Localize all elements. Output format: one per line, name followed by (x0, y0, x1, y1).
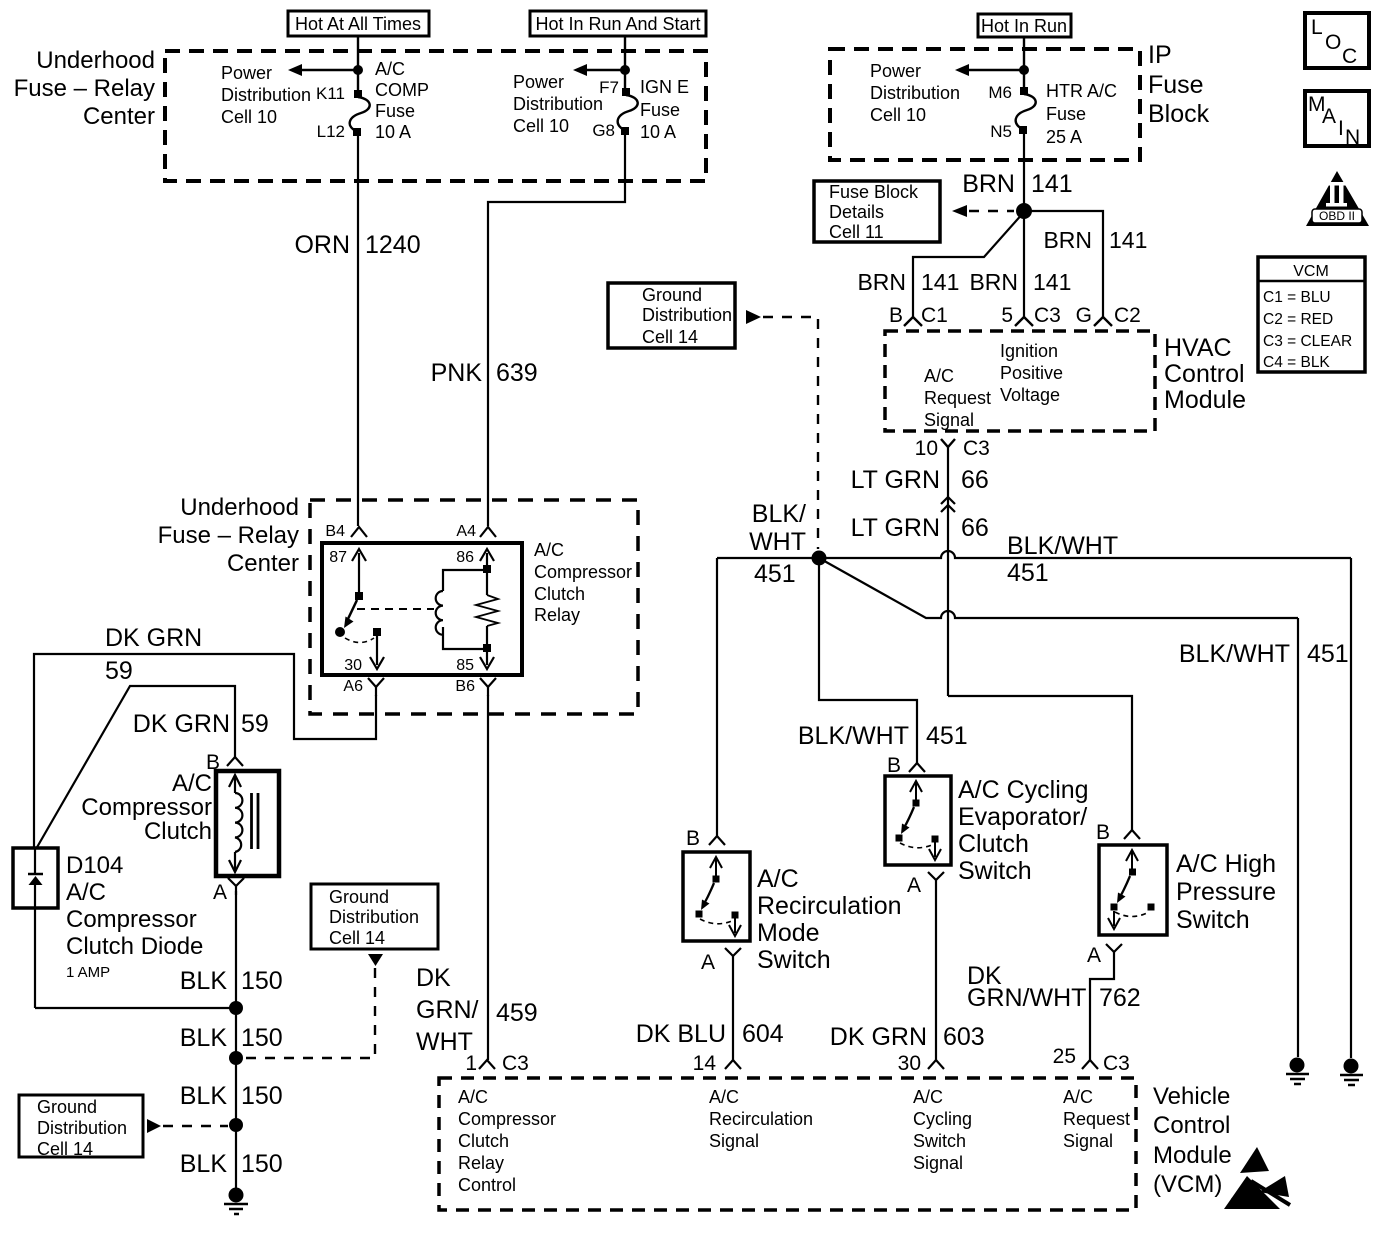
label Vehicle Control Module (VCM) (1153, 1083, 1232, 1198)
label DK GRN 59 (clutch branch) (133, 710, 269, 738)
svg-text:Compressor: Compressor (534, 562, 632, 582)
pin B of A/C recirculation mode switch (686, 827, 725, 850)
svg-text:C1: C1 (921, 304, 948, 327)
svg-text:D104: D104 (66, 852, 123, 879)
high pressure switch internals (1108, 850, 1155, 929)
svg-text:A/C: A/C (66, 879, 106, 906)
pin 5 / C3 of HVAC (1001, 304, 1061, 327)
svg-text:B: B (887, 754, 901, 777)
label A/C Recirculation Signal (VCM internal) (709, 1087, 813, 1151)
label BLK 150 (4) (180, 1150, 283, 1178)
svg-text:Distribution: Distribution (329, 907, 419, 927)
svg-text:DK GRN: DK GRN (830, 1023, 927, 1051)
wire DK GRN 59 from relay A6 to clutch circuit (34, 654, 376, 849)
svg-text:Request: Request (924, 388, 991, 408)
svg-text:1: 1 (465, 1052, 477, 1075)
svg-text:451: 451 (1007, 559, 1049, 587)
svg-text:Recirculation: Recirculation (757, 892, 902, 920)
svg-text:LT GRN: LT GRN (851, 514, 940, 542)
svg-text:Relay: Relay (534, 605, 580, 625)
svg-text:BRN: BRN (969, 269, 1018, 295)
svg-text:BLK/: BLK/ (752, 500, 806, 528)
svg-text:1240: 1240 (365, 231, 421, 259)
svg-text:Distribution: Distribution (642, 305, 732, 325)
svg-text:604: 604 (742, 1020, 784, 1048)
svg-text:Fuse – Relay: Fuse – Relay (14, 75, 155, 102)
pin B / C1 of HVAC (889, 304, 948, 327)
svg-text:25: 25 (1053, 1045, 1076, 1068)
pin A of A/C cycling switch (907, 872, 944, 897)
svg-text:A/C: A/C (375, 59, 405, 79)
svg-text:C: C (1342, 45, 1357, 68)
svg-text:Cell 11: Cell 11 (829, 222, 884, 242)
wire BLK/WHT 451 branch down to recirculation switch B (716, 558, 718, 836)
relay switch blade with arrow (344, 600, 357, 628)
label DK GRN/ WHT 459 (416, 964, 538, 1056)
svg-text:A/C: A/C (172, 770, 212, 797)
label BRN 141 (right branch) (1043, 227, 1147, 253)
svg-text:O: O (1325, 31, 1341, 54)
label DK BLU 604 (636, 1020, 784, 1048)
pin B of A/C high pressure switch (1096, 821, 1140, 844)
svg-text:86: 86 (456, 549, 474, 566)
relay switch common contact (355, 592, 363, 600)
svg-text:BLK/WHT: BLK/WHT (1179, 640, 1290, 668)
relay pin 30 arrow (344, 636, 384, 674)
svg-text:VCM: VCM (1293, 263, 1329, 280)
wire LT GRN 66 horizontal to high pressure switch B (948, 696, 1132, 830)
svg-text:Distribution: Distribution (513, 94, 603, 114)
node splice BLK (2) (229, 1051, 243, 1065)
svg-text:Hot At All Times: Hot At All Times (295, 14, 421, 34)
svg-text:IGN E: IGN E (640, 77, 689, 97)
svg-text:B6: B6 (455, 678, 475, 695)
label A/C COMP Fuse 10 A (375, 59, 429, 142)
wire from Hot In Run to fuse (1023, 37, 1025, 88)
svg-text:Hot In Run: Hot In Run (981, 16, 1067, 36)
svg-text:66: 66 (961, 466, 989, 494)
svg-text:Cell 10: Cell 10 (513, 116, 569, 136)
svg-text:10: 10 (915, 437, 938, 460)
svg-text:150: 150 (241, 967, 283, 995)
svg-text:Compressor: Compressor (458, 1109, 556, 1129)
svg-text:L: L (1311, 16, 1323, 39)
svg-text:A6: A6 (343, 678, 363, 695)
svg-text:Ignition: Ignition (1000, 341, 1058, 361)
svg-text:150: 150 (241, 1024, 283, 1052)
wire BRN 141 branch to HVAC pin B/C1 (913, 212, 1024, 317)
label LT GRN 66 (upper) (851, 466, 989, 494)
label IP Fuse Block (1148, 41, 1210, 128)
label Power Distribution Cell 10 (left block) (221, 63, 311, 127)
svg-text:C3: C3 (963, 437, 990, 460)
svg-text:Cell 14: Cell 14 (642, 327, 698, 347)
svg-text:141: 141 (921, 269, 959, 295)
wire DK GRN/WHT 459 from relay B6 to VCM pin 1/C3 (487, 695, 489, 1060)
pin 30 of VCM (898, 1052, 944, 1075)
svg-text:C3: C3 (1034, 304, 1061, 327)
legend box MAIN (1305, 91, 1369, 149)
svg-text:Vehicle: Vehicle (1153, 1083, 1230, 1110)
svg-text:A/C: A/C (757, 865, 799, 893)
wire arrow to Power Distribution Cell 10 (IP block) (955, 64, 1022, 76)
svg-text:F7: F7 (599, 78, 619, 97)
svg-text:A/C: A/C (534, 540, 564, 560)
svg-text:Cell 14: Cell 14 (329, 928, 385, 948)
wire BRN 141 from fuse N5 down to splice (1023, 134, 1025, 208)
dashed reference arrow to Fuse Block Details (952, 205, 1014, 217)
label D104 A/C Compressor Clutch Diode 1 AMP (66, 852, 203, 981)
label DK GRN/WHT 762 (967, 962, 1141, 1012)
svg-text:DK GRN: DK GRN (133, 710, 230, 738)
svg-text:N5: N5 (990, 122, 1012, 141)
svg-text:10 A: 10 A (375, 122, 411, 142)
svg-text:Signal: Signal (1063, 1131, 1113, 1151)
svg-text:Distribution: Distribution (37, 1118, 127, 1138)
svg-text:Power: Power (870, 61, 921, 81)
svg-text:Fuse: Fuse (1148, 71, 1204, 99)
svg-text:459: 459 (496, 999, 538, 1027)
svg-text:B: B (889, 304, 903, 327)
node junction at IGN E fuse feed (620, 65, 630, 75)
svg-text:A/C: A/C (458, 1087, 488, 1107)
wire DK GRN 603 to VCM pin 30 (935, 880, 937, 1060)
label Power Distribution Cell 10 (IP block) (870, 61, 960, 125)
IP fuse block dashed box (830, 49, 1140, 160)
label A/C High Pressure Switch (1176, 850, 1276, 934)
svg-text:Power: Power (221, 63, 272, 83)
svg-text:A: A (1087, 944, 1101, 967)
label BLK/WHT 451 (top right run) (1007, 532, 1118, 587)
wire DK GRN 59 branch to clutch B and diode (36, 686, 235, 849)
svg-text:Underhood: Underhood (180, 494, 299, 521)
svg-text:LT GRN: LT GRN (851, 466, 940, 494)
ground symbol G104 (far right) (1340, 1059, 1363, 1086)
svg-text:BRN: BRN (1043, 227, 1092, 253)
svg-text:OBD II: OBD II (1319, 209, 1355, 223)
svg-text:A/C: A/C (913, 1087, 943, 1107)
ground symbol G103 (right) (1286, 1058, 1309, 1085)
wire DK GRN/WHT 762 to VCM pin 25/C3 (1090, 952, 1114, 1060)
svg-text:Ground: Ground (37, 1097, 97, 1117)
svg-text:Ground: Ground (642, 285, 702, 305)
reference box Ground Distribution Cell 14 (middle) (311, 884, 438, 949)
svg-text:PNK: PNK (431, 359, 483, 387)
svg-text:5: 5 (1001, 304, 1013, 327)
svg-text:87: 87 (329, 549, 347, 566)
svg-text:150: 150 (241, 1082, 283, 1110)
svg-text:Cell 14: Cell 14 (37, 1139, 93, 1159)
diode D104 symbol (28, 849, 43, 1008)
relay K (A/C Compressor Clutch Relay) box (322, 543, 522, 675)
wire PNK 639 from fuse G8 to relay pin A4 (488, 135, 625, 526)
svg-text:Fuse: Fuse (640, 100, 680, 120)
svg-text:WHT: WHT (749, 528, 806, 556)
svg-text:L12: L12 (317, 122, 345, 141)
svg-text:HVAC: HVAC (1164, 334, 1232, 362)
wire BLK/WHT 451 branch down to cycling switch B (819, 558, 917, 763)
svg-text:M6: M6 (988, 83, 1012, 102)
svg-text:N: N (1345, 126, 1360, 149)
wire break marker on LT GRN 66 (941, 497, 955, 512)
pin A4 of relay (456, 523, 496, 540)
wire from Hot In Run And Start to fuse (624, 36, 626, 88)
svg-text:Compressor: Compressor (66, 906, 197, 933)
svg-text:K11: K11 (316, 84, 345, 103)
node junction at HTR A/C fuse feed (1019, 65, 1029, 75)
label Ignition Positive Voltage (HVAC internal) (1000, 341, 1063, 405)
label A/C Compressor Clutch Relay Control (VCM internal) (458, 1087, 556, 1195)
svg-text:Fuse Block: Fuse Block (829, 182, 919, 202)
svg-text:Details: Details (829, 202, 884, 222)
power feed label box "Hot At All Times" (288, 11, 429, 36)
relay switch pole dot (335, 627, 345, 637)
svg-text:Ground: Ground (329, 887, 389, 907)
fuse F7/G8 IGN E 10A (618, 88, 638, 135)
svg-text:150: 150 (241, 1150, 283, 1178)
svg-text:Distribution: Distribution (221, 85, 311, 105)
fuse M6/N5 HTR A/C 25A (1016, 87, 1036, 134)
svg-text:Fuse: Fuse (1046, 104, 1086, 124)
svg-text:Power: Power (513, 72, 564, 92)
wire LT GRN 66 from HVAC 10/C3 down to high pressure switch (947, 447, 949, 696)
svg-text:141: 141 (1109, 227, 1147, 253)
pin B4 of relay (325, 523, 367, 540)
svg-text:G: G (1076, 304, 1092, 327)
svg-text:A: A (701, 951, 715, 974)
svg-text:A/C Cycling: A/C Cycling (958, 776, 1089, 804)
pin B6 of relay (455, 678, 496, 696)
wire BLK 150 from clutch A to ground (235, 891, 237, 1190)
label Underhood Fuse - Relay Center (relay) (158, 494, 299, 577)
svg-text:ORN: ORN (294, 231, 350, 259)
svg-text:Cell 10: Cell 10 (221, 107, 277, 127)
svg-text:Clutch: Clutch (958, 830, 1029, 858)
node splice S141 (1016, 203, 1032, 219)
svg-text:A4: A4 (456, 523, 476, 540)
pin A of A/C high pressure switch (1087, 944, 1122, 967)
reference box Ground Distribution Cell 14 (bottom left) (19, 1095, 143, 1159)
svg-text:C2: C2 (1114, 304, 1141, 327)
label A/C Request Signal (HVAC internal) (924, 366, 991, 430)
svg-text:762: 762 (1099, 984, 1141, 1012)
relay pin 86 arrow (456, 549, 494, 566)
svg-text:10 A: 10 A (640, 122, 676, 142)
svg-text:66: 66 (961, 514, 989, 542)
node splice BLK/WHT 451 (812, 551, 827, 566)
svg-text:Control: Control (1164, 360, 1245, 388)
fuse F K11/L12 A/C COMP 10A (350, 90, 370, 136)
svg-text:Request: Request (1063, 1109, 1130, 1129)
svg-text:Pressure: Pressure (1176, 878, 1276, 906)
node junction at A/C COMP fuse feed (353, 65, 363, 75)
diode D104 box (13, 848, 58, 908)
label BLK 150 (3) (180, 1082, 283, 1110)
svg-text:603: 603 (943, 1023, 985, 1051)
relay switch dashed throw arc (345, 638, 374, 643)
svg-text:30: 30 (344, 657, 362, 674)
label DK GRN 59 (upper run) (105, 624, 202, 685)
svg-text:C4 = BLK: C4 = BLK (1263, 354, 1330, 371)
legend box LOC (1305, 13, 1369, 68)
svg-text:14: 14 (693, 1052, 717, 1075)
label Underhood Fuse - Relay Center (top) (14, 47, 155, 130)
relay coil (436, 570, 487, 649)
svg-text:BLK: BLK (180, 967, 228, 995)
svg-text:BLK: BLK (180, 1082, 228, 1110)
relay pin 85 arrow (456, 650, 494, 674)
wire ORN 1240 from fuse L12 to relay pin B4 (357, 136, 359, 526)
A/C cycling evaporator/clutch switch box (885, 776, 951, 865)
svg-text:Module: Module (1153, 1142, 1232, 1169)
svg-text:30: 30 (898, 1052, 921, 1075)
svg-text:59: 59 (105, 657, 133, 685)
svg-text:Clutch: Clutch (534, 584, 585, 604)
relay coil node squares on pin 86-85 wire (483, 565, 491, 573)
pin 14 of VCM (693, 1052, 741, 1075)
svg-text:639: 639 (496, 359, 538, 387)
svg-text:A: A (907, 874, 921, 897)
dashed reference arrow from Ground Distribution (bottom) to BLK splice 3 (147, 1119, 228, 1133)
svg-text:B: B (1096, 821, 1110, 844)
label HTR A/C Fuse 25 A (1046, 81, 1117, 147)
svg-text:1 AMP: 1 AMP (66, 964, 110, 981)
label A/C Request Signal (VCM internal) (1063, 1087, 1130, 1151)
wire BRN 141 branch to HVAC pin G/C2 (1024, 211, 1103, 317)
svg-text:IP: IP (1148, 41, 1172, 69)
svg-text:Positive: Positive (1000, 363, 1063, 383)
svg-text:DK GRN: DK GRN (105, 624, 202, 652)
relay coil suppression resistor (476, 570, 498, 649)
wire BLK/WHT 451 to ground (far right) (1350, 558, 1352, 1058)
label BRN 141 (middle pin) (969, 269, 1071, 295)
label A/C Cycling Evaporator/ Clutch Switch (958, 776, 1089, 885)
power feed label box "Hot In Run" (978, 14, 1071, 37)
svg-text:C3: C3 (1103, 1052, 1130, 1075)
svg-text:C3: C3 (502, 1052, 529, 1075)
svg-text:GRN/: GRN/ (416, 996, 479, 1024)
pin G / C2 of HVAC (1076, 304, 1141, 327)
svg-text:451: 451 (926, 722, 968, 750)
label DK GRN 603 (830, 1023, 985, 1051)
reference box Ground Distribution Cell 14 (top) (608, 283, 735, 348)
A/C high pressure switch box (1099, 845, 1167, 935)
label BLK 150 (2) (180, 1024, 283, 1052)
svg-text:GRN/WHT: GRN/WHT (967, 984, 1086, 1012)
wire DK BLU 604 to VCM pin 14 (732, 956, 734, 1060)
wire from Hot At All Times to fuse (357, 36, 359, 90)
label BLK/WHT 451 (right branch) (1179, 640, 1349, 668)
svg-text:C3 = CLEAR: C3 = CLEAR (1263, 333, 1352, 350)
underhood fuse-relay center dashed box (top) (165, 51, 706, 181)
svg-text:B: B (686, 827, 700, 850)
svg-text:A/C: A/C (924, 366, 954, 386)
svg-text:Hot In Run And Start: Hot In Run And Start (535, 14, 700, 34)
svg-text:COMP: COMP (375, 80, 429, 100)
svg-text:Signal: Signal (709, 1131, 759, 1151)
pin 25 / C3 of VCM (1053, 1045, 1130, 1075)
label BRN 141 (left pin) (857, 269, 959, 295)
svg-text:BRN: BRN (962, 170, 1015, 198)
reference box Fuse Block Details Cell 11 (814, 181, 940, 242)
svg-text:Mode: Mode (757, 919, 820, 947)
recirculation switch internals (696, 857, 742, 936)
label PNK 639 (431, 359, 538, 387)
wire arrow to Power Distribution Cell 10 (second block) (573, 64, 623, 76)
svg-text:Underhood: Underhood (36, 47, 155, 74)
wire BLK/WHT 451 main horizontal with hop over LT GRN (717, 551, 1351, 558)
svg-text:451: 451 (1307, 640, 1349, 668)
ESD sensitivity symbol (1224, 1147, 1290, 1209)
svg-text:Evaporator/: Evaporator/ (958, 803, 1087, 831)
label BLK 150 (1) (180, 967, 283, 995)
svg-text:C2 = RED: C2 = RED (1263, 311, 1333, 328)
A/C recirculation mode switch box (683, 852, 750, 941)
svg-text:Block: Block (1148, 100, 1210, 128)
svg-text:25 A: 25 A (1046, 127, 1082, 147)
pin A of A/C compressor clutch (213, 878, 244, 904)
svg-text:I: I (1338, 117, 1344, 140)
svg-text:HTR A/C: HTR A/C (1046, 81, 1117, 101)
legend box VCM connector colors (1258, 257, 1365, 372)
relay switch NO contact (373, 628, 381, 636)
node splice BLK (3) (229, 1118, 243, 1132)
label LT GRN 66 (lower) (851, 514, 989, 542)
node splice BLK (1) (229, 1001, 243, 1015)
svg-text:(VCM): (VCM) (1153, 1171, 1222, 1198)
svg-text:Control: Control (1153, 1112, 1230, 1139)
svg-text:Clutch: Clutch (144, 818, 212, 845)
A/C compressor clutch box (216, 771, 279, 876)
wire arrow to Power Distribution Cell 10 (left block) (288, 64, 356, 76)
relay pin 87 arrow (329, 549, 366, 594)
svg-text:G8: G8 (592, 121, 615, 140)
svg-text:Relay: Relay (458, 1153, 504, 1173)
svg-text:BLK: BLK (180, 1150, 228, 1178)
label BRN 141 (top) (962, 170, 1073, 198)
svg-text:141: 141 (1031, 170, 1073, 198)
svg-text:BLK/WHT: BLK/WHT (798, 722, 909, 750)
svg-text:Signal: Signal (924, 410, 974, 430)
label BLK/WHT 451 (cycling branch) (798, 722, 968, 750)
svg-text:Recirculation: Recirculation (709, 1109, 813, 1129)
svg-text:Switch: Switch (1176, 906, 1250, 934)
pin A of A/C recirculation mode switch (701, 948, 741, 974)
label A/C Cycling Switch Signal (VCM internal) (913, 1087, 972, 1173)
label A/C Compressor Clutch Relay (534, 540, 632, 625)
svg-text:Distribution: Distribution (870, 83, 960, 103)
svg-text:85: 85 (456, 657, 474, 674)
svg-text:Cell 10: Cell 10 (870, 105, 926, 125)
relay actuation dashed link (357, 608, 434, 610)
svg-text:451: 451 (754, 560, 796, 588)
svg-text:Switch: Switch (958, 857, 1032, 885)
svg-text:Clutch Diode: Clutch Diode (66, 933, 203, 960)
wire BLK/WHT 451 to ground (right) (1297, 618, 1299, 1057)
wire BRN 141 branch to HVAC pin 5/C3 (1023, 211, 1025, 317)
dashed reference wire from Ground Distribution Cell 14 to splice (746, 310, 818, 549)
svg-text:Signal: Signal (913, 1153, 963, 1173)
svg-text:A/C High: A/C High (1176, 850, 1276, 878)
svg-text:DK BLU: DK BLU (636, 1020, 726, 1048)
clutch plates bars (252, 793, 259, 849)
label IGN E Fuse 10 A (640, 77, 689, 142)
pin 10 / C3 of HVAC (915, 437, 990, 460)
label A/C Recirculation Mode Switch (757, 865, 902, 974)
label A/C Compressor Clutch (81, 770, 212, 845)
svg-text:Clutch: Clutch (458, 1131, 509, 1151)
svg-text:BLK/WHT: BLK/WHT (1007, 532, 1118, 560)
